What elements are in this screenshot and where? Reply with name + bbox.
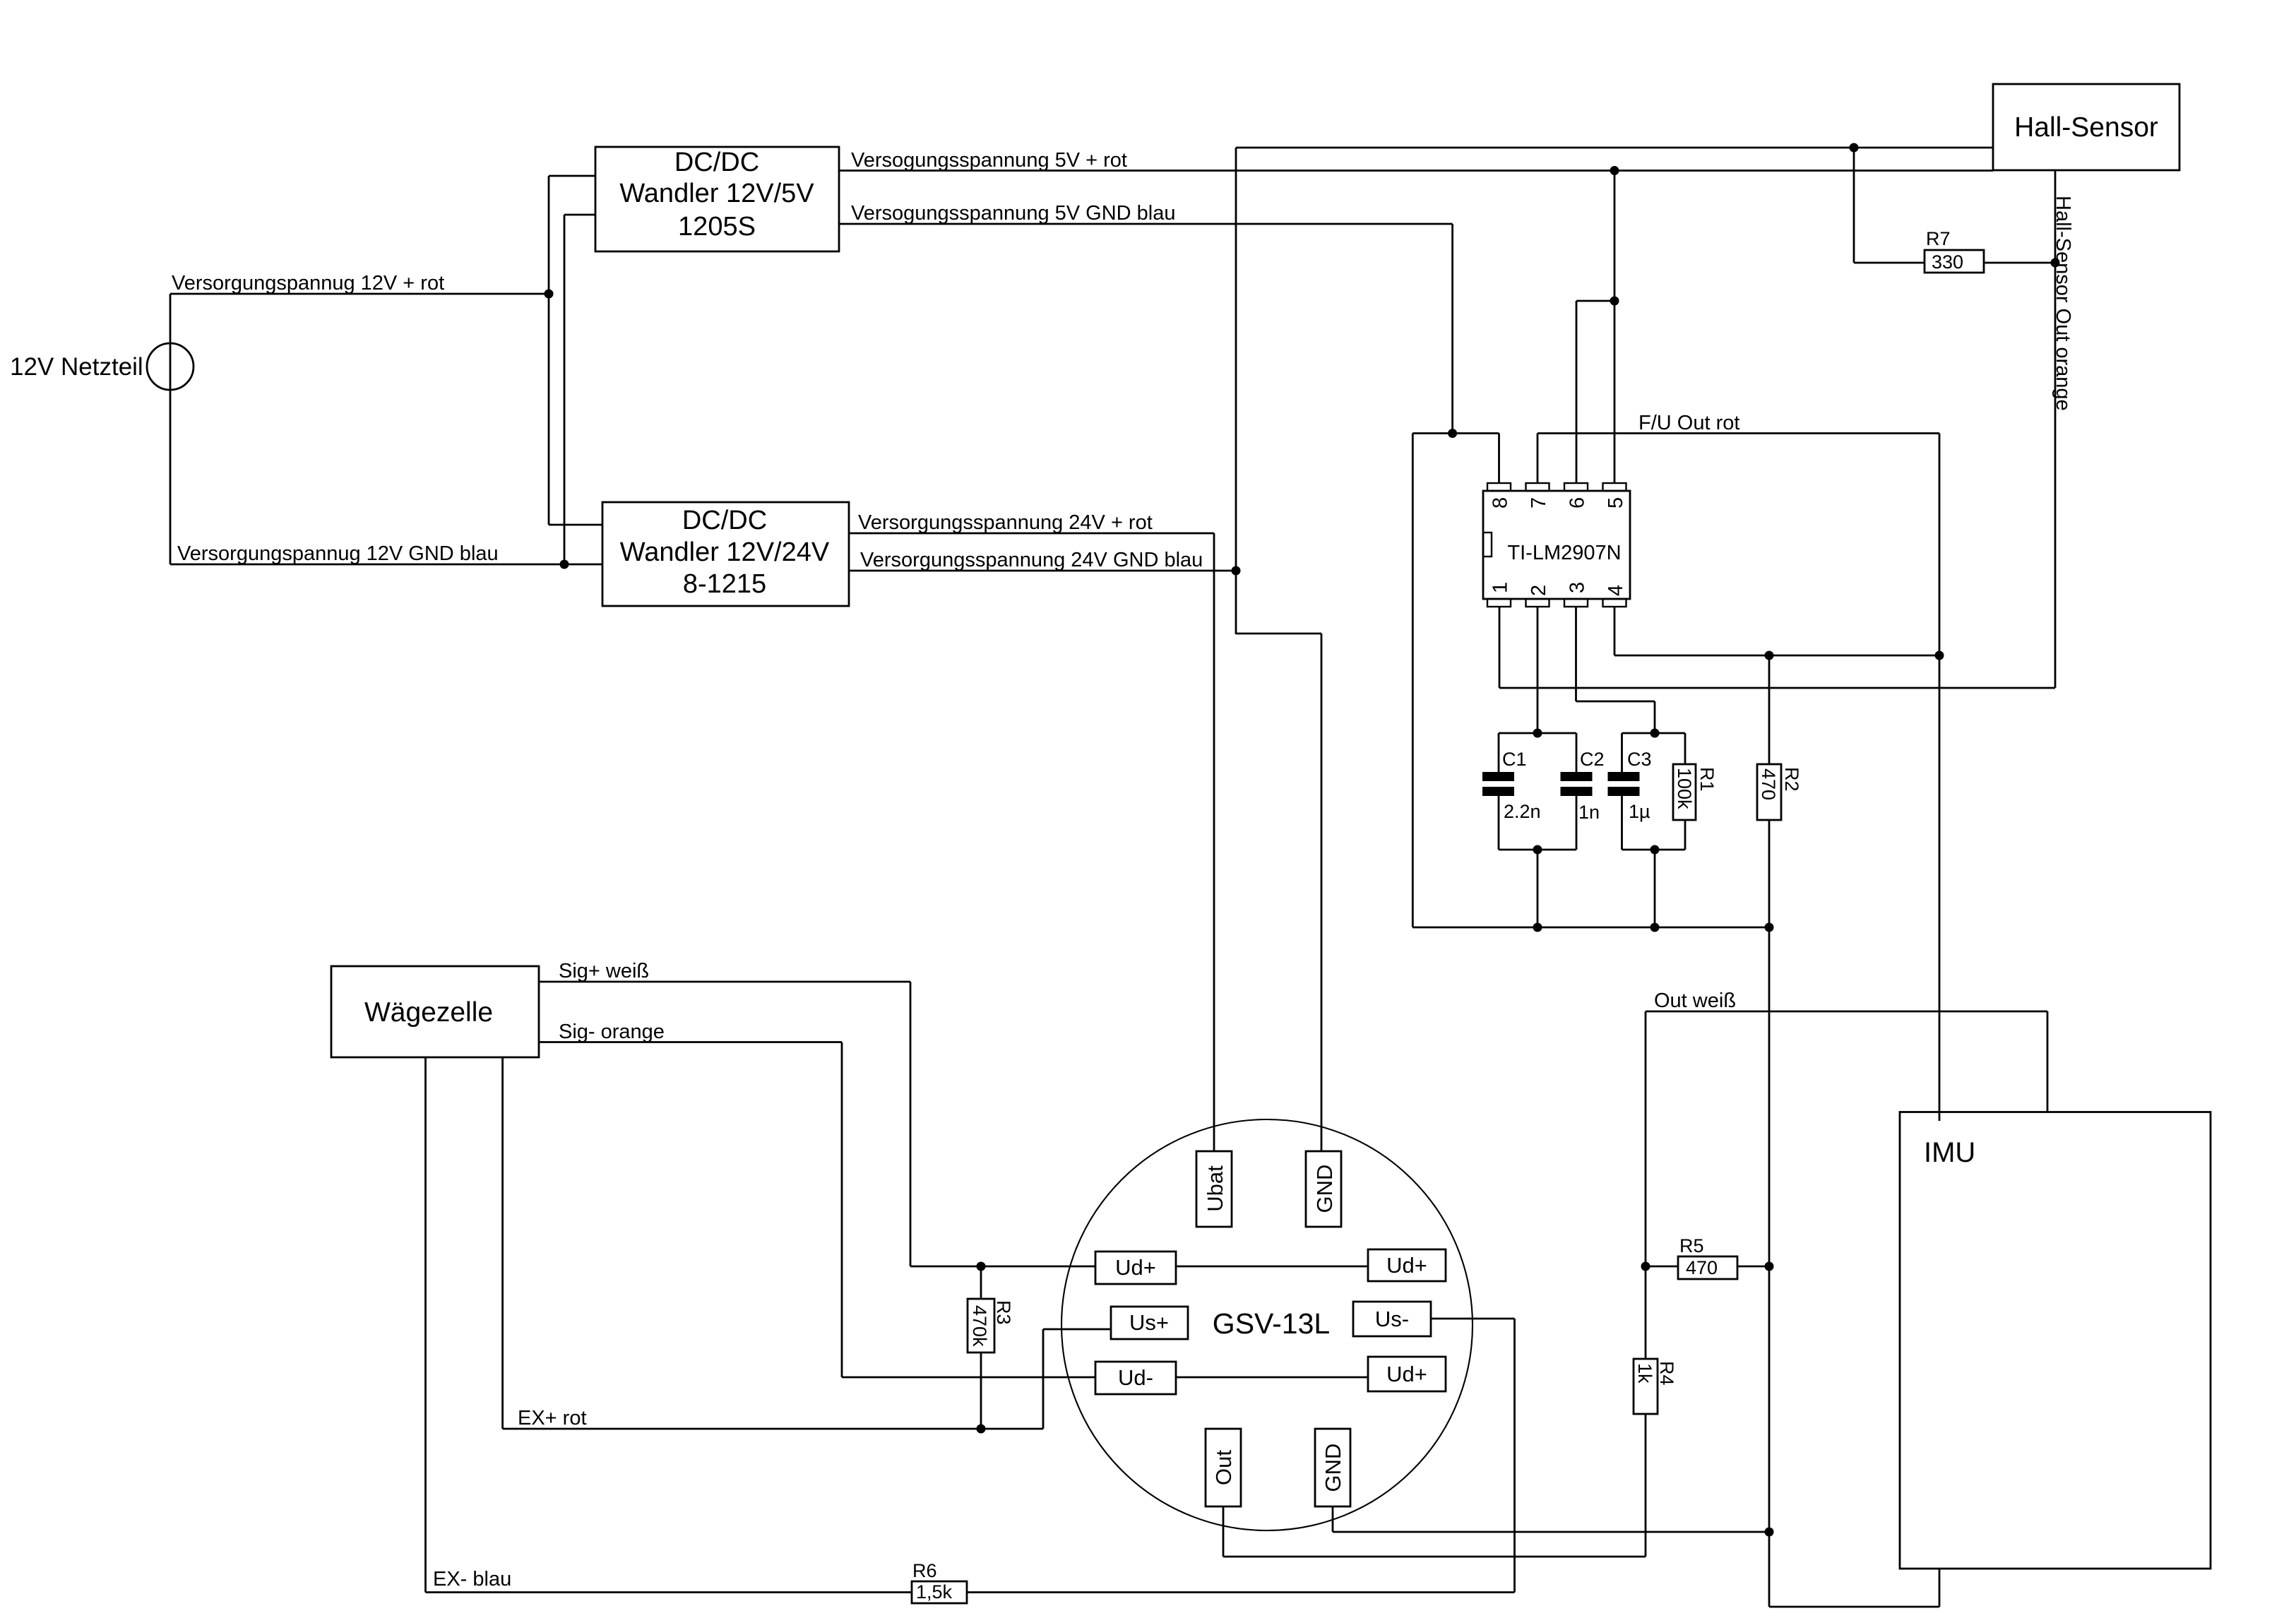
svg-text:R2: R2 (1781, 767, 1802, 792)
pin 3 stub (bottom) (1564, 599, 1588, 607)
node rail R2 junction (1765, 923, 1774, 932)
label C3 (1627, 749, 1652, 770)
label Us+ (1129, 1310, 1169, 1335)
pin Us+ (box) (1111, 1307, 1188, 1339)
node rail C1C2 junction (1533, 923, 1542, 932)
wire C3 bottom leg (1621, 796, 1623, 850)
pin 7 stub (top) (1526, 483, 1549, 491)
wire pin8 horizontal (1412, 432, 1499, 434)
svg-text:Wandler 12V/24V: Wandler 12V/24V (620, 537, 830, 567)
wire R3 top lead (980, 1266, 982, 1299)
resistor R6 (box) (912, 1581, 967, 1603)
svg-text:470: 470 (1686, 1257, 1718, 1278)
wire 24V+ down to Ubat (1213, 533, 1215, 1151)
wire R1 bottom leg (1684, 820, 1687, 850)
wire GND line to Hall-Sensor (1236, 147, 1993, 149)
svg-text:Ubat: Ubat (1203, 1165, 1227, 1212)
node R2 top junction (1765, 651, 1774, 660)
pin Ud+ bottom right (box) (1368, 1357, 1446, 1391)
wire Sig+ vertical x=1289 (910, 982, 912, 1266)
pin Ud+ right (box) (1368, 1249, 1446, 1281)
wire GSV Out down (1223, 1506, 1225, 1557)
wire Us- horizontal (1431, 1318, 1515, 1320)
label Wandler 12V/5V (619, 179, 814, 208)
svg-text:100k: 100k (1674, 768, 1695, 809)
wire 12V+ rot horizontal (170, 293, 549, 295)
module IMU (box) (1900, 1112, 2211, 1569)
label Out (1211, 1450, 1236, 1485)
label Versorgungsspannung 24V GND blau (860, 549, 1203, 571)
wire v3 jog horizontal y=898 (1236, 633, 1321, 635)
svg-text:EX- blau: EX- blau (433, 1568, 511, 1591)
wire C1 top leg (1498, 733, 1500, 772)
capacitor C3 plates (1608, 772, 1640, 796)
pin 4 stub (bottom) (1603, 599, 1626, 607)
wire Waegezelle EX+ vertical (501, 1057, 504, 1429)
svg-text:470: 470 (1758, 768, 1779, 800)
wire Hall out horizontal y=974 (1499, 687, 2055, 689)
svg-text:1µ: 1µ (1629, 801, 1650, 822)
label Ubat (1203, 1165, 1227, 1212)
pin number 7 (1528, 497, 1550, 509)
svg-text:5: 5 (1605, 497, 1627, 509)
wire chain bottom horizontal (1769, 1606, 1939, 1608)
svg-text:F/U Out rot: F/U Out rot (1638, 412, 1739, 434)
resistor R4 (box) (1634, 1359, 1658, 1414)
label 330 (1932, 251, 1963, 273)
svg-text:12V Netzteil: 12V Netzteil (10, 353, 143, 381)
wire R7 right lead (1984, 262, 2055, 264)
label 470 (R5) (1686, 1257, 1718, 1278)
node pin2 C1C2 junction (1533, 729, 1542, 738)
wire R7 drop vertical (1853, 148, 1855, 263)
svg-text:8-1215: 8-1215 (683, 569, 766, 599)
wire pin4 vertical (1614, 607, 1616, 655)
wire Sig+ to Ud+ left (910, 1266, 1095, 1268)
label 2.2n (1504, 801, 1541, 822)
wire GSV GND down (1332, 1506, 1334, 1532)
wire Out weiss horizontal (1646, 1011, 2047, 1013)
svg-text:EX+ rot: EX+ rot (518, 1407, 587, 1429)
wire 24V + rot (849, 533, 1214, 535)
label Out weiss (1654, 989, 1736, 1012)
svg-text:6: 6 (1566, 497, 1589, 509)
node pin6 jog junction (1610, 297, 1619, 306)
label 12V Netzteil (10, 353, 143, 381)
wire pin6 vertical (1576, 301, 1578, 483)
label Sig- orange (559, 1021, 665, 1043)
power source 12V Netzteil (circle) (147, 343, 194, 390)
wire EX+ rot horizontal (503, 1428, 1043, 1430)
svg-text:Us-: Us- (1375, 1307, 1409, 1331)
label EX+ rot (518, 1407, 587, 1429)
svg-text:DC/DC: DC/DC (674, 148, 759, 177)
label GSV-13L (1213, 1307, 1330, 1340)
svg-text:Out weiß: Out weiß (1654, 989, 1736, 1012)
svg-text:1,5k: 1,5k (916, 1581, 953, 1603)
svg-text:Versorgungspannug 12V GND blau: Versorgungspannug 12V GND blau (177, 542, 499, 565)
wire C1 bottom leg (1498, 796, 1500, 850)
svg-text:Versorgungspannug 12V + rot: Versorgungspannug 12V + rot (172, 272, 444, 295)
wire v1 top to DC/DC 12V/5V (549, 175, 596, 177)
svg-text:Out: Out (1211, 1450, 1236, 1485)
label R6 (912, 1560, 937, 1581)
wire IMU bottom stub (1939, 1569, 1941, 1607)
label 8-1215 (683, 569, 766, 599)
node C1C2 bottom junction (1533, 845, 1542, 855)
label R7 (1926, 228, 1951, 249)
svg-text:Versogungsspannung 5V + rot: Versogungsspannung 5V + rot (851, 149, 1127, 172)
pin GND bottom (box) (1315, 1429, 1350, 1506)
wire 12V+ from Netzteil top (169, 294, 172, 564)
svg-text:2.2n: 2.2n (1504, 801, 1541, 822)
wire v2 top to DC/DC 12V/5V (564, 214, 596, 216)
converter U3 DC/DC Wandler 12V/24V 8-1215 (box) (602, 502, 849, 606)
pin number 5 (1605, 497, 1627, 509)
wire ground rail y=1313 (1412, 927, 1769, 929)
pin number 6 (1566, 497, 1589, 509)
sensor Hall-Sensor (box) (1993, 84, 2179, 170)
label 1,5k (916, 1581, 953, 1603)
wire R2 bottom chain (1768, 820, 1771, 1607)
pin number 2 (1528, 585, 1550, 596)
wire R5 left lead (1646, 1266, 1678, 1268)
wire F/U Out rot horizontal (1537, 432, 1939, 434)
label Hall-Sensor Out orange (2052, 196, 2074, 411)
node 12V+ junction (545, 290, 554, 299)
wire 5V GND blau horizontal (839, 223, 1453, 225)
svg-text:1k: 1k (1634, 1363, 1655, 1384)
svg-text:2: 2 (1528, 585, 1550, 596)
label Sig+ weiss (559, 960, 649, 982)
pin Ud- (box) (1095, 1362, 1176, 1394)
wire pin3 vertical (1575, 607, 1577, 701)
pin number 4 (1605, 585, 1627, 596)
node R5 left junction (1641, 1262, 1650, 1271)
capacitor C1 plates (1482, 772, 1514, 796)
svg-text:Ud+: Ud+ (1115, 1255, 1156, 1280)
svg-text:R3: R3 (993, 1300, 1014, 1325)
node F/U junction y=928 (1935, 651, 1944, 660)
label R1 (1696, 767, 1718, 792)
node 5V pin5 junction (1610, 166, 1619, 175)
label TI-LM2907N (1507, 542, 1621, 564)
wire Sig+ weiss horizontal (539, 981, 910, 983)
svg-text:Hall-Sensor: Hall-Sensor (2014, 112, 2158, 143)
wire 5V GND vertical drop (1451, 224, 1453, 434)
resistor R7 (box) (1925, 250, 1984, 273)
svg-text:Sig+ weiß: Sig+ weiß (559, 960, 649, 982)
pin 6 stub (top) (1564, 483, 1588, 491)
wire GSV Out horizontal (1223, 1556, 1646, 1558)
wire v3 vertical x=1750 (1235, 148, 1237, 634)
svg-text:330: 330 (1932, 251, 1963, 273)
label DC/DC (U3) (682, 506, 767, 535)
resistor R3 (box) (968, 1299, 994, 1352)
wire F/U vertical to IMU (1939, 434, 1941, 1122)
svg-text:8: 8 (1489, 497, 1512, 509)
node rail C3R1 junction (1650, 923, 1660, 932)
wire R7 left lead (1854, 262, 1925, 264)
svg-text:Wägezelle: Wägezelle (364, 997, 493, 1028)
pin 8 stub (top) (1487, 483, 1511, 491)
label Ud+ bottom right (1386, 1362, 1427, 1386)
label Versorgungspannug 12V + rot (172, 272, 444, 295)
wire Sig- orange horizontal (539, 1041, 842, 1043)
svg-text:GND: GND (1312, 1165, 1337, 1213)
label R2 (1781, 767, 1802, 792)
wire EX- blau right of R6 (967, 1591, 1515, 1593)
wire pin3 jog horizontal (1576, 701, 1655, 703)
svg-text:GSV-13L: GSV-13L (1213, 1307, 1330, 1340)
svg-text:C3: C3 (1627, 749, 1652, 770)
node GSV GND junction (1765, 1528, 1774, 1537)
svg-text:R1: R1 (1696, 767, 1718, 792)
node R3 top junction (977, 1262, 986, 1271)
resistor R5 (box) (1678, 1256, 1737, 1279)
node 5V line R7 junction (1850, 143, 1859, 153)
wire v3 down to GSV GND pin (1321, 634, 1323, 1151)
label GND top (1312, 1165, 1337, 1213)
node 24V GND junction (1232, 566, 1241, 576)
wire Sig- vertical x=1192 (841, 1042, 843, 1378)
node R7 Hall-out junction (2051, 258, 2060, 268)
label 1µ (1629, 801, 1650, 822)
label Versogungsspannung 5V + rot (851, 149, 1127, 172)
wire pin2 vertical (1537, 607, 1539, 733)
label R5 (1679, 1235, 1704, 1256)
wire C3R1 to rail (1654, 850, 1656, 927)
label 100k (1674, 768, 1695, 809)
svg-text:C1: C1 (1502, 749, 1527, 770)
pin Us- (box) (1353, 1302, 1431, 1336)
label Versogungsspannung 5V GND blau (851, 202, 1175, 225)
wire v2 vertical x=799 (564, 215, 566, 564)
svg-text:Ud+: Ud+ (1386, 1253, 1427, 1278)
label C1 (1502, 749, 1527, 770)
IC U1 TI-LM2907N (body) (1483, 491, 1630, 599)
wire Hall-Sensor Out vertical (2054, 170, 2057, 688)
svg-text:1205S: 1205S (678, 212, 756, 242)
wire pin5 vertical x=2286 (1614, 171, 1616, 484)
pin 5 stub (top) (1603, 483, 1626, 491)
svg-text:GND: GND (1321, 1444, 1345, 1492)
connector GSV-13L (circle) (1061, 1119, 1473, 1530)
pin GND top (box) (1306, 1151, 1341, 1227)
wire Ud- internal (1176, 1377, 1368, 1379)
wire C3-R1 bracket bottom (1622, 849, 1686, 851)
svg-text:R6: R6 (912, 1560, 937, 1581)
node pin3 C3R1 junction (1650, 729, 1660, 738)
node C3R1 bottom junction (1650, 845, 1660, 855)
wire pin6 jog horizontal (1576, 300, 1614, 302)
svg-text:R4: R4 (1656, 1361, 1677, 1386)
label C2 (1580, 749, 1605, 770)
label IMU (1924, 1137, 1975, 1168)
wire 5V + rot (839, 170, 1993, 172)
label EX- blau (433, 1568, 511, 1591)
capacitor C2 plates (1561, 772, 1593, 796)
wire R4 bottom lead (1645, 1414, 1647, 1557)
svg-text:1n: 1n (1578, 802, 1600, 823)
wire v1 vertical x=777 (548, 176, 550, 525)
wire C1-C2 bracket bottom (1499, 849, 1576, 851)
svg-text:Wandler 12V/5V: Wandler 12V/5V (619, 179, 814, 208)
svg-text:Hall-Sensor Out orange: Hall-Sensor Out orange (2052, 196, 2074, 411)
svg-text:Versorgungsspannung 24V GND bl: Versorgungsspannung 24V GND blau (860, 549, 1203, 571)
label Waegezelle (364, 997, 493, 1028)
wire Us+ horizontal (1043, 1328, 1111, 1331)
pin 2 stub (bottom) (1526, 599, 1549, 607)
pin Ubat (box) (1196, 1151, 1232, 1227)
svg-text:R5: R5 (1679, 1235, 1704, 1256)
pin number 3 (1566, 582, 1589, 593)
wire GSV GND horizontal (1333, 1531, 1769, 1533)
pin number 8 (1489, 497, 1512, 509)
wire Us- vertical x=2144.5 (1513, 1319, 1516, 1593)
label 1k (1634, 1363, 1655, 1384)
wire v1 bottom to DC/DC 12V/24V (549, 524, 603, 526)
label GND bottom (1321, 1444, 1345, 1492)
wire EX- blau left of R6 (426, 1591, 912, 1593)
label Versorgungsspannung 24V + rot (858, 511, 1153, 534)
node 12V GND junction (560, 560, 569, 569)
wire pin4 horizontal y=928 (1614, 655, 1939, 657)
wire Waegezelle EX- vertical (424, 1057, 427, 1593)
svg-text:Versorgungsspannung 24V + rot: Versorgungsspannung 24V + rot (858, 511, 1153, 534)
node R5 right junction (1765, 1262, 1774, 1271)
node 5V GND to pin8 junction (1448, 429, 1457, 438)
wire pin1 vertical (1499, 607, 1501, 688)
svg-text:IMU: IMU (1924, 1137, 1975, 1168)
pin number 1 (1489, 582, 1512, 593)
label 470 (R2) (1758, 768, 1779, 800)
label Ud+ left (1115, 1255, 1156, 1280)
resistor R2 (box) (1757, 764, 1781, 820)
wire R3 bottom lead (980, 1352, 982, 1429)
label Wandler 12V/24V (620, 537, 830, 567)
svg-text:7: 7 (1528, 497, 1550, 509)
wire gnd left vertical x=2000 (1412, 434, 1414, 928)
wire Sig- to Ud- left (842, 1377, 1095, 1379)
wire 24V GND blau (849, 570, 1236, 572)
pin 1 stub (bottom) (1487, 599, 1511, 607)
wire C3-R1 bracket top (1622, 732, 1686, 735)
wire C3 top leg (1621, 733, 1623, 772)
sensor Waegezelle (box) (331, 966, 539, 1057)
wire pin3 jog vertical (1654, 701, 1656, 733)
svg-text:Versogungsspannung 5V GND blau: Versogungsspannung 5V GND blau (851, 202, 1175, 225)
label DC/DC (U2) (674, 148, 759, 177)
converter U2 DC/DC Wandler 12V/5V 1205S (box) (595, 147, 839, 251)
label Versorgungspannug 12V GND blau (177, 542, 499, 565)
pin Ud+ left (box) (1095, 1252, 1176, 1284)
wire C1C2 to rail (1537, 850, 1539, 927)
label F/U Out rot (1638, 412, 1739, 434)
svg-text:Ud-: Ud- (1118, 1365, 1153, 1390)
wire C1-C2 bracket top (1499, 732, 1576, 735)
pin Out (box) (1206, 1429, 1241, 1506)
wire 12V GND horizontal (170, 564, 603, 566)
svg-text:4: 4 (1605, 585, 1627, 596)
wire R1 top leg (1684, 733, 1687, 764)
svg-text:R7: R7 (1926, 228, 1951, 249)
label R4 (1656, 1361, 1677, 1386)
IC U1 notch (1483, 533, 1492, 557)
wire Out weiss vertical to IMU (2047, 1011, 2049, 1112)
label Hall-Sensor (2014, 112, 2158, 143)
svg-text:TI-LM2907N: TI-LM2907N (1507, 542, 1621, 564)
wire pin8 vertical (1498, 434, 1500, 484)
wire R2 top lead (1768, 655, 1771, 764)
label 1n (1578, 802, 1600, 823)
wire Ud+ internal (1176, 1266, 1368, 1268)
svg-text:3: 3 (1566, 582, 1589, 593)
svg-text:470k: 470k (969, 1305, 990, 1347)
resistor R1 (box) (1673, 764, 1696, 820)
svg-text:DC/DC: DC/DC (682, 506, 767, 535)
label 1205S (678, 212, 756, 242)
svg-text:1: 1 (1489, 582, 1512, 593)
wire C2 top leg (1576, 733, 1578, 772)
wire pin7 vertical (1537, 434, 1539, 484)
label R3 (993, 1300, 1014, 1325)
svg-text:C2: C2 (1580, 749, 1605, 770)
wire Us+ vertical x=1477 (1042, 1329, 1045, 1429)
node R3 bottom junction (977, 1425, 986, 1434)
wire R5R4 vertical x=2330 (1645, 1011, 1647, 1359)
svg-text:Ud+: Ud+ (1386, 1362, 1427, 1386)
wire C2 bottom leg (1576, 796, 1578, 850)
label Ud- (1118, 1365, 1153, 1390)
svg-text:Us+: Us+ (1129, 1310, 1169, 1335)
wire R5 right lead (1737, 1266, 1769, 1268)
svg-text:Sig- orange: Sig- orange (559, 1021, 665, 1043)
label 470k (969, 1305, 990, 1347)
label Ud+ right (1386, 1253, 1427, 1278)
label Us- (1375, 1307, 1409, 1331)
